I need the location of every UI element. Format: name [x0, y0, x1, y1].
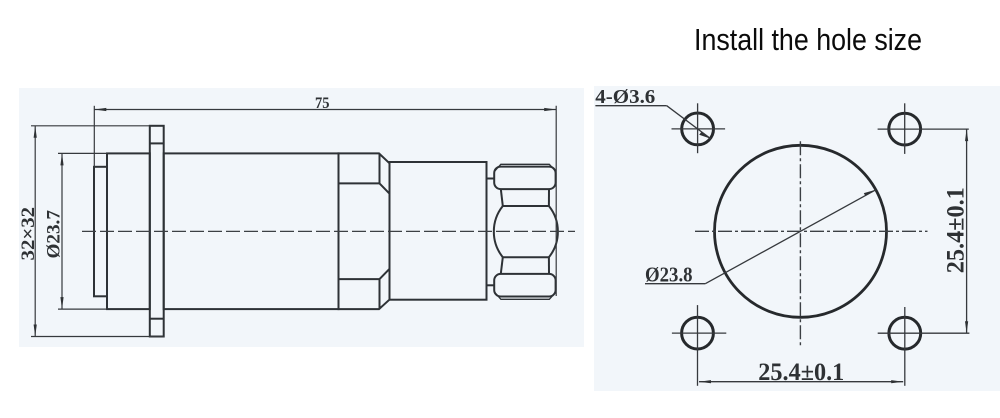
svg-text:Ø23.8: Ø23.8: [645, 262, 693, 286]
dim 23.7 top extension: [58, 152, 107, 154]
flange corner line top: [150, 142, 164, 144]
svg-text:4-Ø3.6: 4-Ø3.6: [595, 86, 655, 108]
coupling nut bottom band: [494, 274, 555, 297]
arrow 75 left: [94, 108, 106, 111]
corner hole bottom-left: [682, 317, 714, 349]
dim 75 right extension: [555, 106, 557, 296]
coupling nut bottom band outer chamfer: [494, 292, 555, 299]
crosshair TL: [672, 128, 726, 130]
crosshair BL + bottom dim extension: [672, 332, 726, 334]
dim 23.7 bottom extension: [58, 308, 107, 310]
coupling nut neck top shelf: [503, 205, 549, 207]
neck line bottom: [487, 284, 495, 286]
dim 23.8 underline: [645, 283, 705, 285]
dim 23.8 diagonal: [705, 190, 876, 284]
coupling nut top band: [494, 167, 555, 190]
leader 4-phi3.6 underline: [595, 105, 666, 107]
coupling nut middle facet left arc: [494, 206, 503, 257]
coupling nut neck right bottom: [548, 257, 550, 274]
coupling nut middle facet right arc: [549, 206, 558, 257]
svg-text:75: 75: [315, 95, 330, 112]
arrow right dim top: [965, 129, 968, 141]
svg-text:Ø23.7: Ø23.7: [43, 210, 64, 259]
arrow bottom dim right: [891, 380, 903, 383]
coupling nut top band outer chamfer: [494, 164, 555, 171]
dim 75 left extension: [93, 106, 95, 167]
hex facet edge top: [339, 153, 390, 193]
main body: [164, 153, 339, 309]
svg-text:Install the hole size: Install the hole size: [694, 22, 922, 57]
coupling nut neck right top: [548, 189, 550, 206]
axis centerline: [82, 230, 575, 232]
neck line top: [487, 178, 495, 180]
hex section outline: [339, 153, 390, 309]
connector rear cap: [94, 167, 107, 296]
crosshair BR + extensions: [878, 332, 970, 334]
arrow 23.7 bottom: [60, 297, 63, 309]
dim 75 line: [94, 109, 556, 111]
arrow 75 right: [544, 108, 556, 111]
bottom dim line: [699, 381, 903, 383]
arrow bottom dim left: [699, 380, 711, 383]
right scanned paper background: [594, 86, 1000, 391]
hex facet edge bottom: [339, 269, 390, 309]
front barrel: [390, 162, 487, 300]
square flange: [150, 126, 164, 337]
arrow 32x32 bottom: [34, 325, 37, 337]
left scanned paper background: [19, 88, 584, 347]
arrow dim 23.8: [864, 190, 876, 196]
corner hole top-left: [682, 113, 714, 145]
big circle horizontal centerline: [695, 230, 928, 232]
big hole circle: [715, 145, 887, 317]
crosshair TR + right dim extension: [878, 128, 969, 130]
dim 23.7 line: [61, 153, 63, 309]
flange corner line bottom: [150, 318, 164, 320]
dim 32x32 top extension: [31, 125, 150, 127]
right dim line: [966, 129, 968, 333]
corner hole top-right: [889, 113, 921, 145]
big circle vertical centerline: [799, 141, 801, 346]
arrow 32x32 top: [34, 126, 37, 138]
corner hole bottom-right: [889, 317, 921, 349]
coupling nut neck left bottom: [501, 257, 503, 274]
leader 4-phi3.6 diagonal: [667, 106, 711, 139]
svg-text:32×32: 32×32: [18, 207, 39, 261]
arrow 23.7 top: [60, 153, 63, 165]
connector rear body: [107, 153, 150, 309]
dim 32x32 line: [34, 126, 36, 337]
coupling nut neck left top: [501, 189, 503, 206]
arrow right dim bottom: [965, 321, 968, 333]
dim 32x32 bottom extension: [31, 336, 164, 338]
coupling nut neck bottom shelf: [503, 256, 549, 258]
arrow leader 4-phi3.6: [699, 132, 711, 139]
svg-text:25.4±0.1: 25.4±0.1: [943, 187, 970, 273]
svg-text:25.4±0.1: 25.4±0.1: [758, 359, 844, 386]
